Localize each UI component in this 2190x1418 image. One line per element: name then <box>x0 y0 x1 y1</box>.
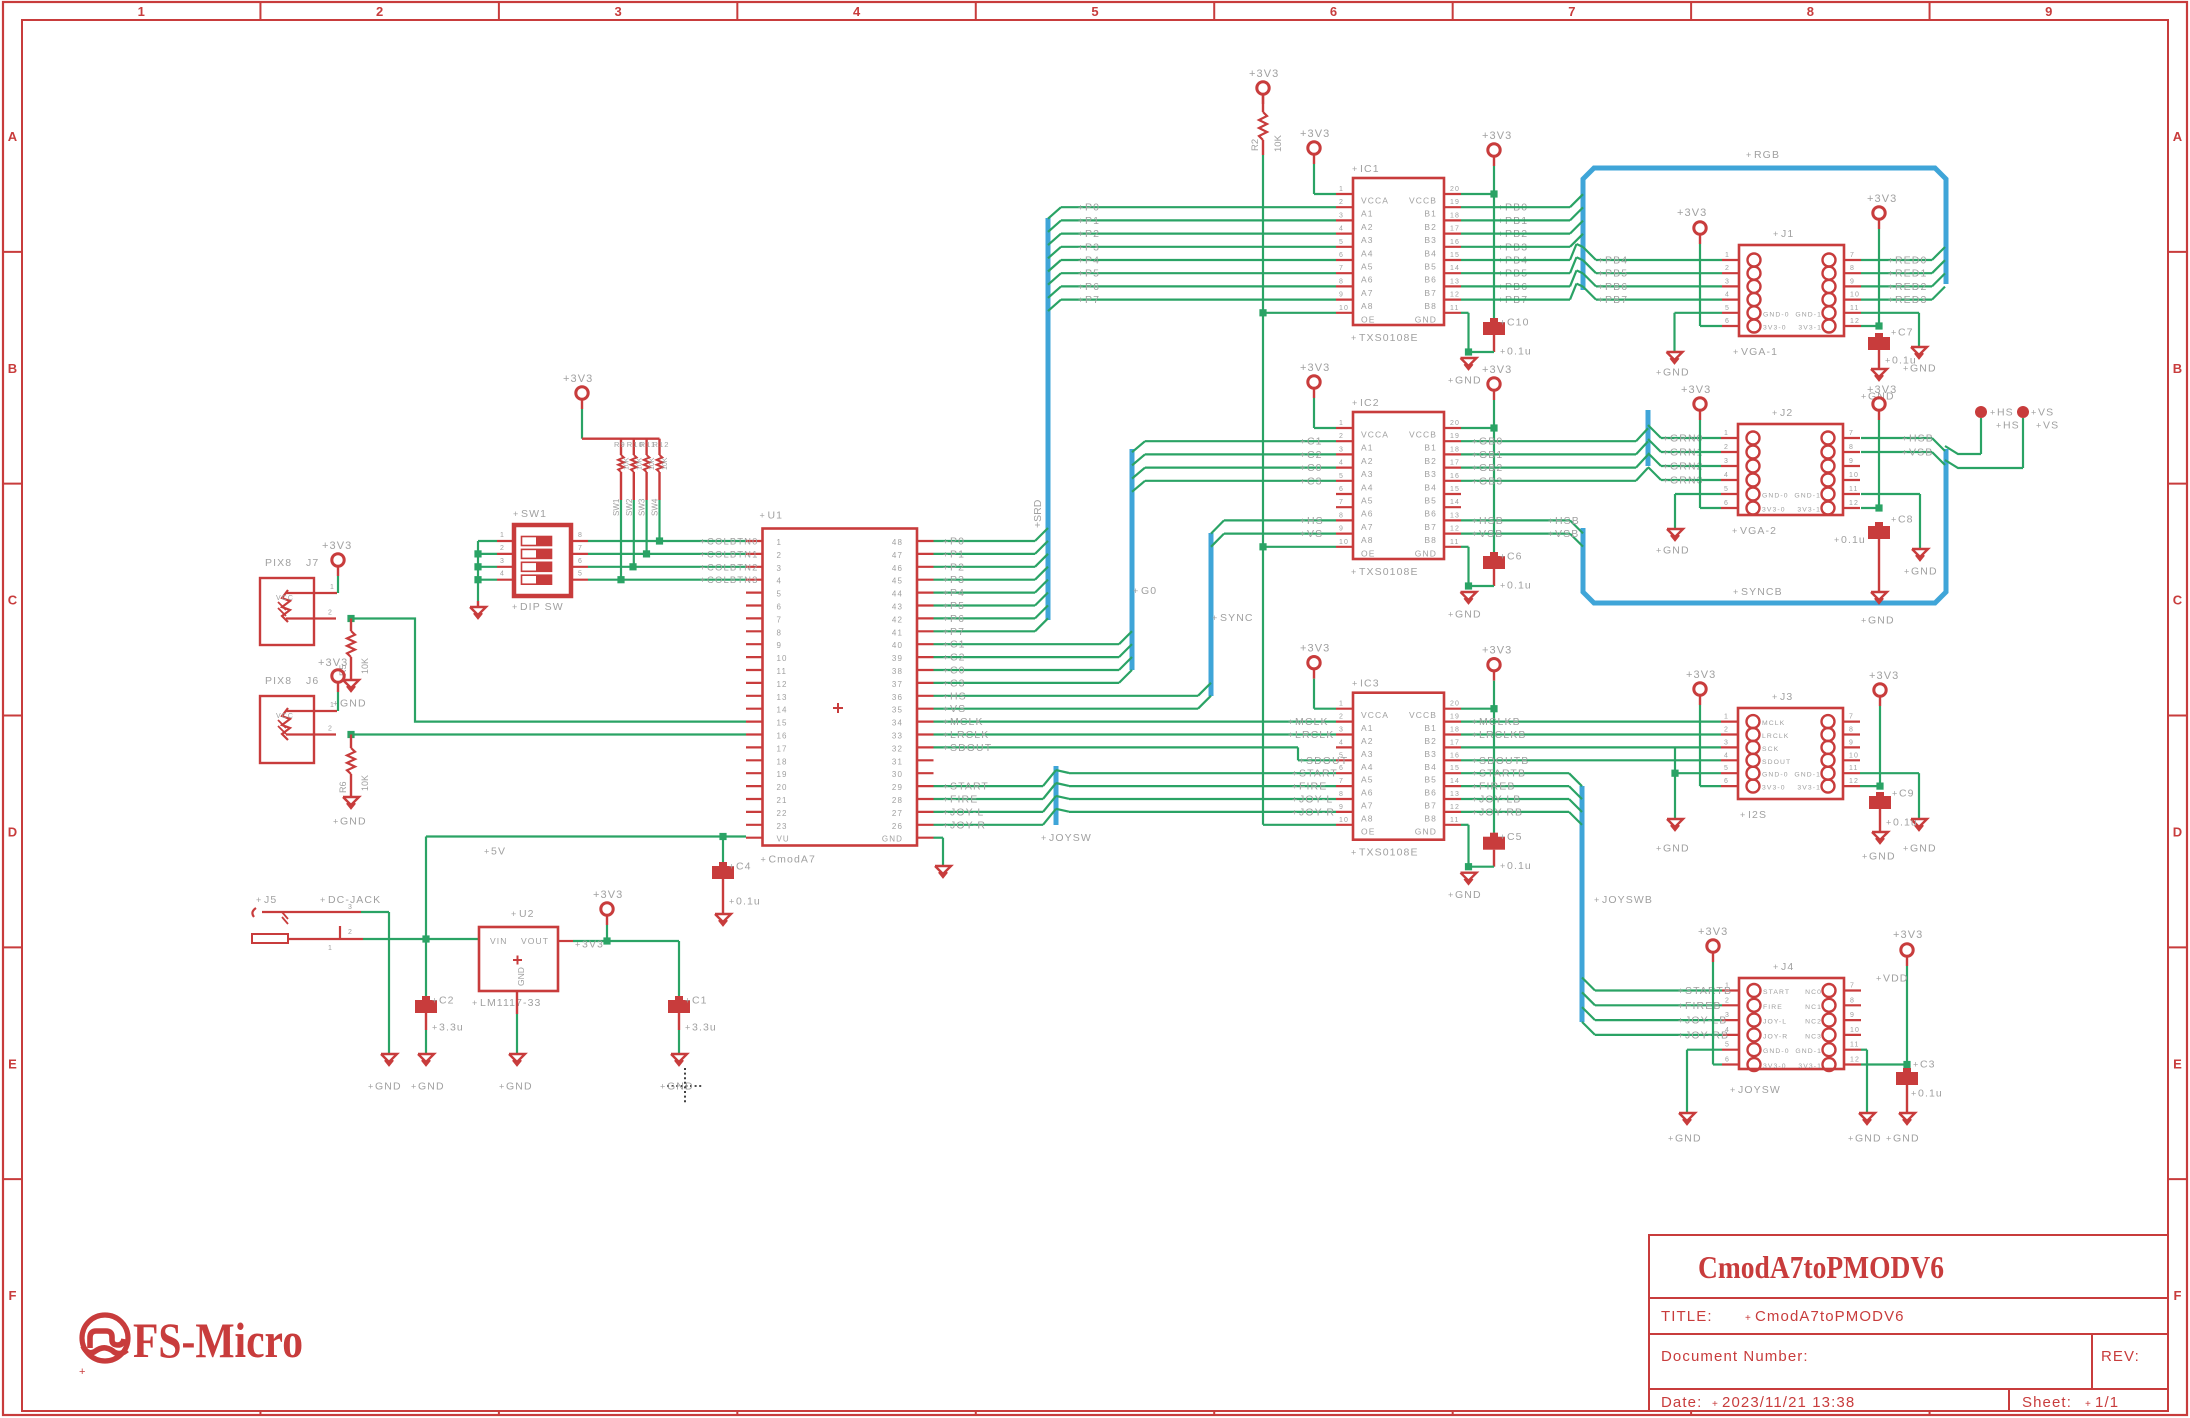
wire R5 to ground <box>350 657 352 680</box>
svg-text:3: 3 <box>1339 212 1344 219</box>
svg-text:GND-0: GND-0 <box>1762 493 1789 500</box>
supply +3V3 pull-up rail <box>563 373 593 439</box>
svg-text:SDOUT: SDOUT <box>1762 759 1791 766</box>
bus SYNC <box>1211 533 1254 696</box>
capacitor C6 0.1u <box>1483 551 1532 592</box>
ground U2 <box>499 1054 533 1093</box>
ground C8 <box>1861 592 1895 627</box>
svg-text:+: + <box>1288 730 1294 740</box>
svg-text:+: + <box>943 614 949 624</box>
svg-text:47: 47 <box>892 551 903 560</box>
svg-text:B: B <box>8 361 17 376</box>
svg-text:33: 33 <box>892 732 903 741</box>
svg-text:+: + <box>1772 692 1778 702</box>
svg-text:10: 10 <box>1849 472 1859 479</box>
svg-text:HSB: HSB <box>1555 515 1580 527</box>
svg-text:SW3: SW3 <box>638 498 647 516</box>
svg-text:GND: GND <box>1911 566 1938 578</box>
svg-text:20: 20 <box>777 783 788 792</box>
svg-text:+: + <box>432 996 438 1006</box>
wire 3V3 output <box>558 937 679 950</box>
svg-text:Sheet:: Sheet: <box>2022 1394 2072 1411</box>
svg-text:3.3u: 3.3u <box>439 1022 464 1034</box>
svg-text:GRN2: GRN2 <box>1670 461 1704 473</box>
svg-text:30: 30 <box>892 770 903 779</box>
svg-text:GND: GND <box>1455 609 1482 621</box>
svg-text:+3V3: +3V3 <box>1482 645 1512 657</box>
svg-text:+: + <box>1772 408 1778 418</box>
DIP switch elements and pins <box>497 532 588 584</box>
svg-text:2: 2 <box>500 545 505 552</box>
svg-text:3: 3 <box>1725 278 1730 285</box>
svg-text:VCCA: VCCA <box>1361 196 1389 206</box>
svg-text:16: 16 <box>1450 752 1460 759</box>
svg-text:GND: GND <box>1663 843 1690 855</box>
wires COLBTN0-3 from DIP switch to U1 <box>588 537 759 587</box>
svg-text:U2: U2 <box>519 908 535 920</box>
svg-text:+3V3: +3V3 <box>1482 130 1512 142</box>
svg-text:7: 7 <box>1849 714 1854 721</box>
resistor R10 10K <box>627 440 644 472</box>
svg-text:+: + <box>1472 717 1478 727</box>
svg-text:2: 2 <box>1339 199 1344 206</box>
svg-text:+: + <box>1078 203 1084 213</box>
svg-text:B2: B2 <box>1424 736 1437 746</box>
svg-text:17: 17 <box>1450 739 1460 746</box>
svg-text:+: + <box>943 549 949 559</box>
svg-text:JOY-LB: JOY-LB <box>1685 1015 1727 1027</box>
svg-text:2: 2 <box>1725 997 1730 1004</box>
svg-text:3V3-0: 3V3-0 <box>1762 785 1786 792</box>
svg-text:+: + <box>1888 282 1894 292</box>
svg-text:GB3: GB3 <box>1479 475 1503 487</box>
supply +3V3 J4 left <box>1698 926 1728 1065</box>
svg-text:+: + <box>1598 269 1604 279</box>
svg-text:11: 11 <box>1849 486 1858 493</box>
svg-text:P2: P2 <box>950 561 965 573</box>
svg-text:+: + <box>1996 421 2002 431</box>
svg-text:FIREB: FIREB <box>1479 781 1515 793</box>
svg-text:+: + <box>1352 164 1358 174</box>
svg-text:19: 19 <box>1450 714 1460 721</box>
svg-text:E: E <box>8 1056 17 1071</box>
photo sensor J7 <box>260 557 319 645</box>
svg-text:+: + <box>1500 861 1506 871</box>
svg-text:DIP SW: DIP SW <box>520 601 564 613</box>
svg-text:C0: C0 <box>1307 462 1323 474</box>
wires HSB VSB from J2 into SYNCB bus <box>1861 433 1945 466</box>
svg-text:+: + <box>1472 756 1478 766</box>
svg-text:PB7: PB7 <box>1605 294 1628 306</box>
supply +3V3 for R2 <box>1249 68 1279 104</box>
svg-text:+3V3: +3V3 <box>1249 68 1279 80</box>
svg-text:23: 23 <box>777 822 788 831</box>
ground J4 right <box>1848 1113 1882 1145</box>
svg-text:+: + <box>1078 229 1084 239</box>
svg-text:P5: P5 <box>950 600 965 612</box>
U1 pins and value CmodA7 <box>746 538 934 866</box>
supply +3V3 J1 right <box>1861 193 1897 330</box>
svg-text:+: + <box>1885 356 1891 366</box>
svg-text:+: + <box>1472 516 1478 526</box>
bus G0..3 <box>1132 449 1157 670</box>
svg-text:3V3-1: 3V3-1 <box>1797 507 1821 514</box>
svg-text:VGA-2: VGA-2 <box>1740 525 1777 537</box>
svg-text:MCLKB: MCLKB <box>1479 716 1521 728</box>
svg-text:A3: A3 <box>1361 469 1374 479</box>
wire R6 to ground <box>350 774 352 797</box>
svg-text:19: 19 <box>1450 199 1460 206</box>
svg-text:+: + <box>943 627 949 637</box>
svg-text:P5: P5 <box>1085 268 1100 280</box>
svg-text:+: + <box>1472 463 1478 473</box>
svg-text:27: 27 <box>892 809 903 818</box>
resistor R12 10K <box>653 440 670 472</box>
wires MCLKB LRCLKB from IC3 to J3 <box>1461 716 1721 741</box>
wires START FIRE JOY-L JOY-R from U1 over JOYSW bus <box>934 770 1070 831</box>
wire U1 GND pin <box>934 838 944 866</box>
svg-text:GND: GND <box>1869 851 1896 863</box>
svg-text:+: + <box>943 653 949 663</box>
svg-text:START: START <box>1299 768 1338 780</box>
svg-text:+: + <box>1352 398 1358 408</box>
svg-text:J3: J3 <box>1780 691 1793 703</box>
svg-text:GND: GND <box>1663 545 1690 557</box>
svg-text:OE: OE <box>1361 314 1375 324</box>
ground J1 right <box>1903 347 1937 375</box>
svg-text:10: 10 <box>1849 752 1859 759</box>
svg-text:VS: VS <box>950 703 966 715</box>
svg-text:GND-0: GND-0 <box>1763 1048 1790 1055</box>
wire J4 GND-1 <box>1861 1050 1867 1113</box>
svg-text:10K: 10K <box>360 658 370 674</box>
svg-text:GND-0: GND-0 <box>1763 311 1790 318</box>
capacitor C1 3.3u <box>668 941 717 1054</box>
svg-text:+: + <box>1472 782 1478 792</box>
svg-text:17: 17 <box>1450 460 1460 467</box>
ground R5 <box>333 680 367 710</box>
svg-text:11: 11 <box>1450 305 1459 312</box>
supply +3V3 VCCA <box>1300 128 1336 194</box>
svg-text:8: 8 <box>777 628 783 637</box>
svg-text:+: + <box>1292 769 1298 779</box>
svg-text:+: + <box>1292 782 1298 792</box>
svg-text:20: 20 <box>1450 186 1460 193</box>
svg-text:B2: B2 <box>1424 456 1437 466</box>
svg-text:TXS0108E: TXS0108E <box>1359 332 1419 344</box>
svg-text:3: 3 <box>1339 446 1344 453</box>
svg-text:+: + <box>1888 256 1894 266</box>
ground J2 right <box>1904 549 1938 578</box>
svg-text:+: + <box>333 817 339 827</box>
capacitor C3 0.1u <box>1896 1059 1943 1114</box>
supply +3V3 regulator output <box>593 889 623 941</box>
svg-text:GND: GND <box>1455 889 1482 901</box>
svg-text:17: 17 <box>1450 226 1460 233</box>
svg-text:3V3: 3V3 <box>582 939 604 951</box>
svg-text:18: 18 <box>1450 212 1460 219</box>
IC1 value TXS0108E <box>1351 332 1419 344</box>
svg-text:C9: C9 <box>1899 788 1915 800</box>
svg-text:10K: 10K <box>636 457 643 470</box>
svg-text:A7: A7 <box>1361 801 1374 811</box>
svg-text:OE: OE <box>1361 826 1375 836</box>
svg-text:3V3-1: 3V3-1 <box>1798 325 1822 332</box>
svg-text:C1: C1 <box>1307 436 1323 448</box>
svg-text:28: 28 <box>892 796 903 805</box>
svg-text:40: 40 <box>892 641 903 650</box>
wires C0-C3 from G bus to IC2 <box>1132 436 1336 492</box>
svg-text:F: F <box>2174 1288 2182 1303</box>
svg-text:6: 6 <box>1724 778 1729 785</box>
svg-text:3V3-0: 3V3-0 <box>1763 1063 1787 1070</box>
svg-text:+: + <box>943 691 949 701</box>
svg-text:10K: 10K <box>360 775 370 791</box>
svg-text:+: + <box>1078 282 1084 292</box>
svg-text:B8: B8 <box>1424 813 1437 823</box>
bus JOYSWB <box>1582 786 1653 1022</box>
cursor crosshair <box>667 1068 703 1104</box>
svg-text:1: 1 <box>1724 430 1729 437</box>
ground C2 <box>411 1054 445 1093</box>
wires MCLK LRCLK from U1 to IC3 <box>934 716 1337 741</box>
svg-text:13: 13 <box>1450 791 1460 798</box>
bus SRD <box>1032 218 1048 620</box>
svg-text:VDD: VDD <box>1883 973 1908 985</box>
supply +3V3 VCCA <box>1300 362 1336 428</box>
svg-text:9: 9 <box>1850 1012 1855 1019</box>
J3 value I2S <box>1740 809 1767 821</box>
svg-text:+: + <box>1472 769 1478 779</box>
svg-text:J4: J4 <box>1781 961 1794 973</box>
svg-text:+: + <box>1500 581 1506 591</box>
svg-text:+: + <box>1351 848 1357 858</box>
svg-text:19: 19 <box>777 770 788 779</box>
svg-text:+: + <box>1834 535 1840 545</box>
resistor R6 10K <box>338 731 370 793</box>
svg-text:7: 7 <box>777 615 783 624</box>
svg-text:+: + <box>1078 216 1084 226</box>
svg-text:A5: A5 <box>1361 775 1374 785</box>
svg-text:+: + <box>943 730 949 740</box>
svg-text:B3: B3 <box>1424 469 1437 479</box>
svg-text:+: + <box>1733 347 1739 357</box>
svg-text:+: + <box>1472 476 1478 486</box>
svg-text:STARTB: STARTB <box>1685 985 1732 997</box>
svg-text:+: + <box>1902 448 1908 458</box>
svg-text:GND: GND <box>418 1081 445 1093</box>
svg-text:P2: P2 <box>1085 228 1100 240</box>
J3 pins <box>1721 714 1860 793</box>
svg-text:+: + <box>1472 529 1478 539</box>
svg-text:+: + <box>1678 1030 1684 1040</box>
svg-text:JOYSWB: JOYSWB <box>1602 894 1653 906</box>
svg-text:3: 3 <box>348 904 353 911</box>
svg-text:RED1: RED1 <box>1895 268 1927 280</box>
supply +3V3 J3 left <box>1686 669 1721 786</box>
svg-text:TXS0108E: TXS0108E <box>1359 566 1419 578</box>
svg-text:B1: B1 <box>1424 443 1437 453</box>
svg-text:PB5: PB5 <box>1605 268 1628 280</box>
svg-text:JOY-L: JOY-L <box>1763 1019 1787 1026</box>
svg-text:1: 1 <box>1339 186 1344 193</box>
svg-text:COLBTN0: COLBTN0 <box>707 537 759 548</box>
svg-text:SW1: SW1 <box>612 498 621 516</box>
svg-text:11: 11 <box>777 667 788 676</box>
svg-text:+: + <box>1598 256 1604 266</box>
wire J1 GND-0 <box>1675 313 1723 352</box>
wire J1 GND-1 <box>1861 313 1919 347</box>
svg-text:C2: C2 <box>950 652 966 664</box>
svg-text:D: D <box>2173 824 2182 839</box>
svg-text:START: START <box>1763 989 1790 996</box>
svg-text:A5: A5 <box>1361 262 1374 272</box>
svg-text:P7: P7 <box>1085 294 1100 306</box>
svg-text:8: 8 <box>578 532 583 539</box>
svg-text:GND: GND <box>1910 843 1937 855</box>
svg-text:FIRE: FIRE <box>950 794 978 806</box>
svg-text:2: 2 <box>348 929 353 936</box>
svg-text:GND: GND <box>340 816 367 828</box>
svg-text:Date:: Date: <box>1661 1394 1702 1411</box>
svg-text:+: + <box>1745 1313 1751 1324</box>
svg-text:+: + <box>368 1082 374 1092</box>
svg-text:3: 3 <box>500 558 505 565</box>
svg-text:A2: A2 <box>1361 456 1374 466</box>
svg-text:GND: GND <box>1675 1133 1702 1145</box>
svg-text:0.1u: 0.1u <box>1507 860 1532 872</box>
svg-text:+: + <box>1300 450 1306 460</box>
svg-text:+: + <box>1351 567 1357 577</box>
svg-text:31: 31 <box>892 757 903 766</box>
svg-text:0.1u: 0.1u <box>1507 346 1532 358</box>
svg-text:LRCLK: LRCLK <box>1295 729 1334 741</box>
svg-text:+: + <box>943 820 949 830</box>
svg-text:JOY-LB: JOY-LB <box>1479 794 1521 806</box>
ground R6 <box>333 797 367 828</box>
svg-text:SYNC: SYNC <box>1220 612 1254 624</box>
svg-text:JOY-R: JOY-R <box>950 819 986 831</box>
svg-text:+: + <box>1886 1134 1892 1144</box>
wire pull-up R12 <box>651 472 660 541</box>
svg-text:8: 8 <box>1339 278 1344 285</box>
svg-text:B6: B6 <box>1424 509 1437 519</box>
svg-text:J1: J1 <box>1781 228 1794 240</box>
svg-text:0.1u: 0.1u <box>1841 534 1866 546</box>
svg-text:+: + <box>1876 974 1882 984</box>
svg-text:10K: 10K <box>662 457 669 470</box>
svg-text:+: + <box>700 562 706 572</box>
svg-text:10K: 10K <box>649 457 656 470</box>
svg-text:35: 35 <box>892 706 903 715</box>
wire pull-up R11 <box>638 472 647 554</box>
IC1 pins <box>1336 186 1461 324</box>
photo sensor J6 <box>260 675 319 763</box>
svg-text:P4: P4 <box>950 587 965 599</box>
svg-text:+3V3: +3V3 <box>318 657 348 669</box>
svg-text:FIRE: FIRE <box>1299 781 1327 793</box>
supply +3V3 J3 right <box>1860 670 1899 790</box>
svg-text:OE: OE <box>1361 548 1375 558</box>
wire J2 GND-0 <box>1675 494 1721 529</box>
svg-text:13: 13 <box>777 693 788 702</box>
wire J2 GND-1 <box>1861 494 1920 549</box>
svg-text:10: 10 <box>777 654 788 663</box>
svg-text:C5: C5 <box>1507 831 1523 843</box>
svg-text:4: 4 <box>500 571 505 578</box>
svg-text:+: + <box>943 704 949 714</box>
capacitor C4 0.1u <box>712 837 761 915</box>
svg-text:+: + <box>760 511 766 521</box>
svg-text:B3: B3 <box>1424 235 1437 245</box>
svg-text:+: + <box>700 549 706 559</box>
svg-text:JOYSW: JOYSW <box>1049 832 1092 844</box>
svg-text:B3: B3 <box>1424 749 1437 759</box>
svg-text:LRCLK: LRCLK <box>1762 733 1789 740</box>
svg-text:HS: HS <box>950 690 967 702</box>
svg-text:4: 4 <box>1724 472 1729 479</box>
ground DC jack <box>368 1054 402 1093</box>
PMOD connector J3 <box>1738 691 1843 799</box>
svg-text:+3V3: +3V3 <box>1698 926 1728 938</box>
svg-text:C7: C7 <box>1898 327 1914 339</box>
svg-text:+: + <box>700 575 706 585</box>
svg-text:C2: C2 <box>439 995 455 1007</box>
svg-text:SYNCB: SYNCB <box>1741 586 1783 598</box>
svg-text:+: + <box>1133 586 1139 596</box>
svg-text:R2: R2 <box>1250 139 1261 151</box>
svg-text:+: + <box>2031 408 2037 418</box>
svg-text:IC2: IC2 <box>1360 397 1380 409</box>
ground J4 left <box>1668 1113 1702 1145</box>
svg-text:VIN: VIN <box>490 936 507 946</box>
svg-text:+: + <box>943 640 949 650</box>
svg-text:+: + <box>1678 1001 1684 1011</box>
svg-text:+: + <box>1773 229 1779 239</box>
svg-text:22: 22 <box>777 809 788 818</box>
svg-text:C8: C8 <box>1898 514 1914 526</box>
svg-text:+3V3: +3V3 <box>593 889 623 901</box>
ground C1 <box>660 1054 694 1093</box>
svg-text:+: + <box>1733 587 1739 597</box>
supply +3V3 VCCB <box>1482 130 1512 194</box>
wire OE net from R2 to IC1 IC2 IC3 <box>1259 140 1336 825</box>
svg-text:B4: B4 <box>1424 248 1437 258</box>
ground J1 left <box>1656 352 1690 379</box>
svg-text:VCCA: VCCA <box>1361 430 1389 440</box>
svg-text:B1: B1 <box>1424 209 1437 219</box>
resistor R2 10K <box>1250 95 1284 153</box>
svg-text:+: + <box>1712 1399 1718 1410</box>
svg-text:15: 15 <box>1450 765 1460 772</box>
svg-text:B5: B5 <box>1424 262 1437 272</box>
svg-text:C2: C2 <box>1307 449 1323 461</box>
svg-text:+: + <box>1678 986 1684 996</box>
DIP switch SW1 <box>513 508 571 596</box>
svg-text:11: 11 <box>1849 765 1858 772</box>
svg-text:12: 12 <box>1450 292 1460 299</box>
svg-text:8: 8 <box>1339 512 1344 519</box>
svg-text:10: 10 <box>1339 817 1349 824</box>
ground C4 <box>715 914 731 925</box>
svg-text:MCLK: MCLK <box>950 716 984 728</box>
svg-text:+: + <box>1300 437 1306 447</box>
svg-text:+: + <box>1500 832 1506 842</box>
svg-text:+3V3: +3V3 <box>1300 128 1330 140</box>
svg-text:6: 6 <box>1330 4 1337 19</box>
title block TITLE row <box>1661 1308 1905 1325</box>
svg-text:B4: B4 <box>1424 482 1437 492</box>
